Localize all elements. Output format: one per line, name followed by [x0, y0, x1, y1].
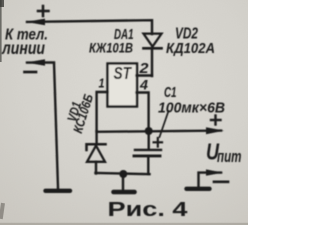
node junction dot [145, 127, 153, 135]
arrowhead at + terminal pointing left [26, 19, 45, 26]
svg-text:С1: С1 [164, 84, 177, 101]
diode VD2 (КД102А) [144, 34, 162, 76]
leader line from C1 value [160, 111, 169, 137]
svg-text:100мк×6В: 100мк×6В [158, 100, 225, 117]
pin 2 wire [137, 74, 153, 76]
svg-text:2: 2 [138, 60, 149, 77]
wire: output node line [97, 131, 221, 132]
bottom rail junction dot [119, 170, 127, 178]
IC DA1 body [108, 64, 138, 107]
pin 1 wire down to node line [97, 92, 108, 131]
svg-text:Рис. 4: Рис. 4 [108, 198, 189, 221]
scan edge artifacts [0, 0, 2, 62]
svg-text:КЖ101В: КЖ101В [89, 40, 133, 56]
plus terminal sign (telephone line +) [38, 6, 49, 16]
zener VD1 (КС106Б) [87, 131, 106, 174]
arrowhead output + pointing right [206, 127, 224, 134]
svg-text:пит: пит [217, 148, 242, 166]
plus sign at output [211, 116, 221, 125]
wire: top rail from + terminal to VD2 anode [27, 20, 152, 34]
pin 4 wire down to output node [137, 93, 149, 131]
minus sign [25, 71, 37, 74]
svg-text:КД102А: КД102А [166, 41, 215, 57]
paper background [0, 0, 248, 225]
svg-text:VD2: VD2 [175, 26, 198, 43]
wire: bottom rail [96, 173, 150, 174]
arrowhead at - terminal pointing left [26, 59, 45, 65]
ground (middle) [114, 174, 135, 192]
svg-text:линии: линии [1, 38, 45, 58]
wire VD2 cathode down to pin 2 [151, 48, 153, 76]
plus polarity mark [154, 138, 162, 147]
minus terminal wire to left ground [27, 62, 58, 188]
svg-text:4: 4 [139, 77, 148, 93]
svg-text:ST: ST [114, 63, 133, 83]
svg-text:1: 1 [99, 76, 105, 91]
capacitor C1 [134, 131, 162, 174]
ground (left) [46, 189, 71, 193]
output minus terminal with ground (right) [187, 169, 229, 188]
